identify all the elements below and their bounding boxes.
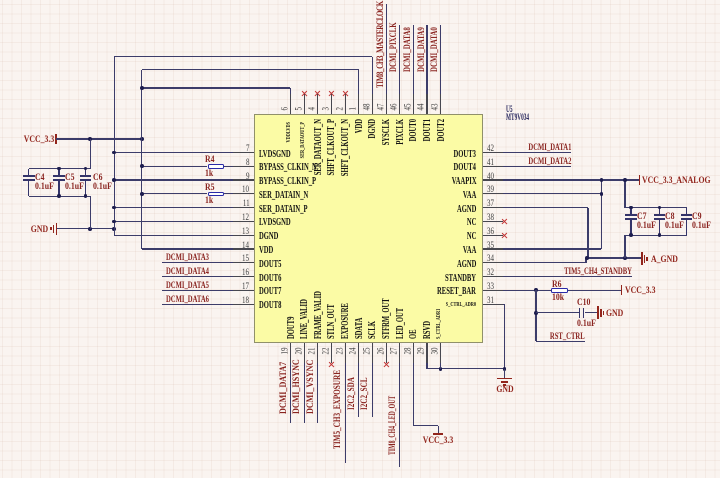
pin 33 RESET_BAR stub	[483, 290, 503, 291]
pin name NC	[467, 232, 477, 241]
wire VCC top to pin1	[142, 69, 359, 70]
NC stub pin38	[483, 221, 503, 222]
pin number 16	[242, 268, 249, 277]
pin number 18	[242, 296, 249, 305]
pin name VDD	[259, 246, 273, 255]
pin name VAA	[463, 191, 476, 200]
junction C8 bottom	[658, 233, 662, 237]
pin 30 S_CTRL_ADR1 stub	[440, 343, 441, 363]
wire R6 to VCC	[568, 290, 622, 291]
wire RESET_BAR pin33 left	[483, 290, 551, 291]
power port VCC_3.3 (left)	[23, 136, 54, 145]
pin 15 DOUT5 stub	[233, 262, 253, 263]
pin number 15	[242, 254, 249, 263]
wire pin48 drop	[372, 57, 373, 115]
wire AGND pin34 jog	[585, 258, 586, 263]
wire OE pin28 right	[413, 425, 438, 426]
pin 4 SER_DATAOUT_N stub	[317, 94, 318, 114]
wire cap rail drop bottom	[90, 196, 91, 229]
pin number 21	[308, 347, 317, 354]
pin name STANDBY	[445, 274, 476, 283]
wire AGND pin37 drop	[587, 208, 588, 258]
junction A_GND left	[585, 256, 589, 260]
net label I2C2_SDA	[348, 378, 357, 411]
net label DCMI_DATA8	[404, 27, 413, 72]
net label DCMI_PIXCLK	[390, 22, 399, 72]
net label RST_CTRL	[550, 333, 585, 342]
wire pin12 LVDSGND	[114, 221, 253, 222]
wire pin11 SER_DATAIN_P	[114, 207, 253, 208]
no-connect X pin22	[329, 362, 335, 368]
wire net DCMI_HSYNC	[304, 343, 305, 423]
pin name SHFT_CLKOUT_N	[341, 119, 350, 176]
pin 12 LVDSGND stub	[233, 221, 253, 222]
wire AGND pin34	[483, 262, 586, 263]
pin 32 STANDBY stub	[483, 276, 503, 277]
pin number 25	[362, 347, 371, 354]
wire analog caps bottom rail	[625, 235, 687, 236]
pin 22 STLN_OUT stub	[331, 343, 332, 363]
pin number 34	[487, 254, 494, 263]
pin number 28	[403, 347, 412, 354]
pin name STLN_OUT	[327, 304, 336, 339]
pin name DOUT5	[259, 260, 281, 269]
power port GND (C10)	[597, 306, 599, 319]
capacitor C9	[686, 208, 687, 216]
pin name SER_DATAIN_N	[259, 191, 308, 200]
pin 42 DOUT3 stub	[483, 152, 503, 153]
pin 23 EXPOSURE stub	[345, 343, 346, 363]
power port VCC_3.3 (R6)	[621, 285, 623, 295]
pin number 6	[280, 106, 289, 110]
junction pin6 branch	[140, 86, 144, 90]
wire pin6 drop	[290, 88, 291, 114]
pin number 31	[487, 296, 494, 305]
pin 16 DOUT6 stub	[233, 276, 253, 277]
resistor R6	[551, 288, 568, 293]
pin name RESET_BAR	[437, 287, 476, 296]
resistor R5	[208, 192, 225, 197]
pin 46 PIXCLK stub	[399, 94, 400, 114]
junction C7 bottom	[629, 233, 633, 237]
junction pin7	[112, 151, 116, 155]
pin 17 DOUT7 stub	[233, 290, 253, 291]
pin name DOUT6	[259, 274, 281, 283]
resistor R4	[208, 164, 225, 169]
pin 5 SER_DATAOUT_P stub	[304, 94, 305, 114]
pin name DGND	[368, 119, 377, 138]
pin number 29	[417, 347, 426, 354]
pin name SCLK	[368, 321, 377, 339]
net label TIM5_CH4_STANDBY	[564, 268, 632, 277]
power port VCC_3.3 (pin28)	[433, 433, 443, 435]
pin number 8	[246, 158, 250, 167]
pin 21 FRAME_VALID stub	[317, 343, 318, 363]
pin number 36	[487, 227, 494, 236]
pin name BYPASS_CLKIN_P	[259, 177, 316, 186]
wire DCMI_DATA0 pin43	[440, 25, 441, 115]
net label DCMI_DATA2	[529, 158, 572, 167]
pin name RSVD	[423, 321, 432, 339]
wire pin31 drop	[504, 304, 505, 369]
pin number 40	[487, 172, 494, 181]
wire TIM8_CH3_MASTERCLOCK pin47	[386, 4, 387, 114]
net label DCMI_DATA0	[431, 27, 440, 72]
pin number 7	[246, 144, 250, 153]
pin name VDD	[355, 119, 364, 133]
wire GND bus vertical A	[114, 57, 115, 235]
wire net TIM5_CH3_EXPOSURE	[345, 343, 346, 463]
pin name LED_OUT	[396, 308, 405, 339]
pin number 1	[349, 106, 358, 110]
wire GND to bus	[57, 228, 115, 229]
wire net DCMI_DATA7	[290, 343, 291, 423]
pin number 44	[417, 103, 426, 110]
pin 8 BYPASS_CLKIN_N stub	[233, 166, 253, 167]
pin name LVDSGND	[259, 150, 291, 159]
no-connect stub pin 4	[317, 95, 318, 114]
wire RESET vertical	[535, 290, 536, 341]
net label I2C2_SCL	[361, 378, 370, 410]
power port A_GND	[641, 252, 643, 265]
wire GND top to pin48	[114, 56, 372, 57]
pin name DGND	[259, 232, 278, 241]
wire S_CTRL_ADR1 pin30 down	[440, 343, 441, 369]
no-connect stub pin26	[386, 343, 387, 363]
pin 44 DOUT1 stub	[426, 94, 427, 114]
wire RSVD pin29 down	[426, 343, 427, 369]
pin number 17	[242, 282, 249, 291]
power port GND (bottom)	[504, 369, 505, 378]
pin name AGND	[457, 260, 476, 269]
wire OE pin28 down	[413, 343, 414, 426]
junction analog caps top	[623, 178, 627, 182]
wire R5 left	[142, 193, 208, 194]
wire pin9 BYPASS_CLKIN_P	[114, 179, 253, 180]
junction VAA rail	[600, 178, 604, 182]
wire pin6 branch	[142, 87, 291, 88]
pin 29 RSVD stub	[426, 343, 427, 363]
junction C6 bottom	[84, 194, 88, 198]
pin 3 SHFT_CLKOUT_P stub	[331, 94, 332, 114]
capacitor C8	[659, 208, 660, 216]
pin 1 VDD stub	[358, 94, 359, 114]
pin name SHFT_CLKOUT_P	[327, 119, 336, 175]
wire net I2C2_SCL	[372, 343, 373, 416]
net label DCMI_DATA1	[529, 144, 572, 153]
wire cap bottom rail	[29, 196, 90, 197]
pin number 2	[335, 106, 344, 110]
no-connect stub pin 2	[345, 95, 346, 114]
pin name DOUT4	[454, 163, 476, 172]
pin 2 SHFT_CLKOUT_N stub	[345, 94, 346, 114]
junction pin9	[112, 178, 116, 182]
pin name AGND	[457, 205, 476, 214]
wire net DCMI_DATA4	[162, 276, 254, 277]
pin name NC	[467, 218, 477, 227]
wire DCMI_PIXCLK pin46	[399, 25, 400, 115]
pin name LVDSGND	[259, 218, 291, 227]
pin 48 DGND stub	[372, 94, 373, 114]
junction VCC/C-rail	[88, 137, 92, 141]
pin number 42	[487, 144, 494, 153]
pin name DOUT8	[259, 301, 281, 310]
capacitor C5	[58, 169, 59, 177]
wire net DCMI_DATA5	[162, 290, 254, 291]
pin name VDDLVDS	[285, 122, 294, 142]
pin 28 OE stub	[413, 343, 414, 363]
part number MT9V034	[506, 113, 529, 123]
net label TIM8_CH3_MASTERCLOCK	[377, 1, 386, 88]
pin 45 DOUT0 stub	[413, 94, 414, 114]
junction pin11	[112, 206, 116, 210]
wire VAA pin39	[483, 193, 602, 194]
no-connect X pin 3	[329, 91, 335, 97]
wire R4 left	[142, 166, 208, 167]
wire net TIM8_CH4_LED_OUT	[399, 343, 400, 467]
wire OE pin28 stub	[438, 426, 439, 434]
wire VAAPIX pin40 analog rail	[483, 179, 640, 180]
pin name DOUT7	[259, 287, 281, 296]
pin 36 NC stub	[483, 235, 503, 236]
wire RST_CTRL	[536, 341, 585, 342]
pin name DOUT3	[454, 150, 476, 159]
wire DCMI_DATA8 pin45	[413, 25, 414, 115]
pin name S_CTRL_ADR1	[435, 309, 444, 339]
pin number 19	[280, 347, 289, 354]
no-connect stub pin 5	[304, 95, 305, 114]
pin number 5	[294, 106, 303, 110]
junction R5/bus B	[140, 192, 144, 196]
wire cap top rail	[29, 168, 90, 169]
pin 7 LVDSGND stub	[233, 152, 253, 153]
wire pin13 DGND	[114, 235, 253, 236]
junction C8 top	[658, 206, 662, 210]
IC U5 MT9V034 body	[254, 114, 483, 343]
pin number 26	[376, 347, 385, 354]
pin number 43	[431, 103, 440, 110]
power port GND (left)	[31, 226, 48, 235]
pin number 10	[242, 185, 249, 194]
net label TIM5_CH3_EXPOSURE	[334, 370, 343, 449]
pin number 37	[487, 199, 494, 208]
pin 18 DOUT8 stub	[233, 304, 253, 305]
wire net I2C2_SDA	[358, 343, 359, 416]
pin number 13	[242, 227, 249, 236]
pin name FRAME_VALID	[314, 291, 323, 339]
pin number 39	[487, 185, 494, 194]
net label DCMI_DATA4	[166, 268, 209, 277]
pin number 11	[242, 199, 249, 208]
pin number 20	[294, 347, 303, 354]
pin name DOUT0	[409, 119, 418, 141]
pin name DOUT9	[287, 317, 296, 339]
junction pin30	[439, 367, 443, 371]
no-connect X pin36	[501, 232, 507, 238]
pin 6 VDDLVDS stub	[290, 94, 291, 114]
pin number 47	[376, 103, 385, 110]
wire C10 branch	[536, 312, 579, 313]
wire net DCMI_DATA3	[162, 262, 254, 263]
wire DOUT4 pin41	[483, 166, 572, 167]
wire C10 to GND	[585, 312, 597, 313]
wire R5 right to pin10	[224, 193, 254, 194]
NC stub pin36	[483, 235, 503, 236]
pin 20 LINE_VALID stub	[304, 343, 305, 363]
pin 11 SER_DATAIN_P stub	[233, 207, 253, 208]
junction A_GND caps	[623, 256, 627, 260]
pin 27 LED_OUT stub	[399, 343, 400, 363]
pin name EXPOSURE	[341, 303, 350, 339]
designator U5	[506, 105, 513, 115]
wire analog caps top drop	[624, 180, 625, 208]
pin name DOUT1	[423, 119, 432, 141]
pin 14 VDD stub	[233, 248, 253, 249]
pin name STFRM_OUT	[382, 298, 391, 339]
junction GND net bottom	[503, 367, 507, 371]
pin 35 VAA stub	[483, 248, 503, 249]
wire AGND pin37	[483, 207, 588, 208]
wire VAA pin35	[483, 248, 602, 249]
junction pin12	[112, 220, 116, 224]
pin name VAAPIX	[451, 177, 476, 186]
pin number 14	[242, 241, 249, 250]
junction C5 top	[57, 167, 61, 171]
pin name SER_DATAIN_P	[259, 205, 308, 214]
wire pin29 to GND	[427, 368, 505, 369]
pin name PIXCLK	[396, 119, 405, 145]
capacitor C4	[28, 169, 29, 177]
wire DCMI_DATA9 pin44	[426, 25, 427, 115]
pin number 46	[390, 103, 399, 110]
pin 19 DOUT9 stub	[290, 343, 291, 363]
pin 31 S_CTRL_ADR0 stub	[483, 304, 503, 305]
pin 9 BYPASS_CLKIN_P stub	[233, 179, 253, 180]
no-connect X pin 2	[342, 91, 348, 97]
pin number 27	[390, 347, 399, 354]
no-connect stub pin22	[331, 343, 332, 363]
pin number 38	[487, 213, 494, 222]
pin name LINE_VALID	[300, 299, 309, 339]
no-connect stub pin 3	[331, 95, 332, 114]
pin 10 SER_DATAIN_N stub	[233, 193, 253, 194]
pin number 24	[349, 347, 358, 354]
wire R4 right to pin8	[224, 166, 254, 167]
no-connect X pin 5	[301, 91, 307, 97]
wire pin7 LVDSGND	[114, 152, 253, 153]
pin 47 SYSCLK stub	[386, 94, 387, 114]
pin number 45	[403, 103, 412, 110]
pin 13 DGND stub	[233, 235, 253, 236]
pin number 33	[487, 282, 494, 291]
pin name SER_DATAOUT_P	[299, 122, 308, 158]
pin number 12	[242, 213, 249, 222]
pin 26 STFRM_OUT stub	[386, 343, 387, 363]
pin number 9	[246, 172, 250, 181]
pin number 48	[362, 103, 371, 110]
pin number 22	[321, 347, 330, 354]
net label DCMI_DATA7	[280, 362, 289, 414]
no-connect X pin 4	[315, 91, 321, 97]
wire analog caps top rail	[625, 207, 687, 208]
pin 24 SDATA stub	[358, 343, 359, 363]
pin name VAA	[463, 246, 476, 255]
wire DOUT3 pin42	[483, 152, 572, 153]
junction VCC/bus B	[140, 137, 144, 141]
wire VCC to bus	[56, 138, 142, 139]
wire A_GND rail	[586, 257, 641, 258]
wire STANDBY pin32	[483, 276, 632, 277]
pin number 23	[335, 347, 344, 354]
wire pin14 VDD	[142, 248, 254, 249]
net label DCMI_DATA5	[166, 282, 209, 291]
pin name SER_DATAOUT_N	[314, 119, 323, 175]
pin number 3	[321, 106, 330, 110]
capacitor C6	[85, 169, 86, 177]
wire pin1 drop	[358, 70, 359, 115]
power port VCC_3.3_ANALOG	[639, 175, 641, 185]
pin 37 AGND stub	[483, 207, 503, 208]
junction VAA pin39	[600, 192, 604, 196]
net label DCMI_DATA9	[418, 27, 427, 72]
pin number 4	[308, 106, 317, 110]
pin 40 VAAPIX stub	[483, 179, 503, 180]
pin number 32	[487, 268, 494, 277]
net label DCMI_HSYNC	[293, 359, 302, 414]
capacitor C7	[630, 208, 631, 216]
no-connect X pin26	[383, 362, 389, 368]
pin number 35	[487, 241, 494, 250]
pin number 30	[431, 347, 440, 354]
pin name S_CTRL_ADR0	[446, 302, 476, 308]
junction C7 top	[629, 206, 633, 210]
junction C6 top	[84, 167, 88, 171]
junction R4/bus B	[140, 164, 144, 168]
junction GND/C-rail	[88, 227, 92, 231]
junction C10 tee	[534, 311, 538, 315]
wire net DCMI_VSYNC	[317, 343, 318, 423]
no-connect X pin38	[501, 219, 507, 225]
pin 43 DOUT2 stub	[440, 94, 441, 114]
junction GND/bus A	[112, 227, 116, 231]
pin name SDATA	[355, 318, 364, 339]
net label DCMI_VSYNC	[307, 360, 316, 414]
net label DCMI_DATA3	[166, 254, 209, 263]
pin name DOUT2	[437, 119, 446, 141]
net label DCMI_DATA6	[166, 296, 209, 305]
pin 41 DOUT4 stub	[483, 166, 503, 167]
wire analog caps bottom drop	[624, 235, 625, 258]
pin 25 SCLK stub	[372, 343, 373, 363]
pin 39 VAA stub	[483, 193, 503, 194]
pin 34 AGND stub	[483, 262, 503, 263]
wire cap rail drop top	[90, 139, 91, 169]
pin 38 NC stub	[483, 221, 503, 222]
pin name BYPASS_CLKIN_N	[259, 163, 317, 172]
wire net DCMI_DATA6	[162, 304, 254, 305]
wire S_CTRL_ADR0 pin31	[483, 304, 505, 305]
net label TIM8_CH4_LED_OUT	[389, 396, 398, 455]
wire VCC bus vertical B	[141, 70, 142, 249]
junction R6 net	[534, 288, 538, 292]
junction C5 bottom	[57, 194, 61, 198]
pin number 41	[487, 158, 494, 167]
wire VAA vertical	[601, 180, 602, 249]
pin name SYSCLK	[382, 119, 391, 145]
capacitor C10	[579, 308, 581, 319]
pin name OE	[409, 329, 418, 339]
